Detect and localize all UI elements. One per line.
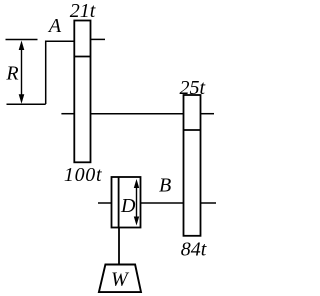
diameter arrow D (double-headed) [134, 179, 139, 226]
R top extension tick [6, 39, 38, 41]
shaft left stub at 100t [61, 113, 74, 115]
shaft B between drum and 84t [141, 202, 184, 204]
lower reference line [7, 103, 46, 105]
weight W trapezoid [99, 265, 141, 293]
gear column 25t/84t outline [184, 95, 201, 236]
shaft connecting 100t and 25t [91, 113, 184, 115]
crank vertical line [45, 41, 47, 105]
shaft B right stub [201, 202, 217, 204]
svg-text:B: B [159, 175, 171, 197]
svg-text:25t: 25t [180, 77, 206, 99]
gear divider between 25t and 84t [184, 129, 201, 131]
svg-text:21t: 21t [70, 0, 96, 22]
drum inner flange line [118, 177, 120, 228]
shaft right stub at 25t [201, 113, 215, 115]
rope from drum to weight [118, 228, 120, 265]
svg-text:A: A [47, 15, 62, 37]
svg-text:D: D [120, 195, 136, 217]
gear divider between 21t and 100t [74, 56, 90, 58]
shaft A left segment [46, 40, 75, 42]
svg-text:100t: 100t [64, 164, 102, 186]
svg-text:84t: 84t [181, 238, 207, 260]
shaft B left stub [98, 202, 112, 204]
shaft A right stub [91, 38, 106, 40]
drum outline [112, 177, 141, 228]
gear column 21t/100t outline [74, 21, 90, 163]
dimension arrow R (double-headed) [19, 41, 25, 104]
svg-text:W: W [111, 269, 130, 291]
svg-text:R: R [5, 63, 18, 85]
